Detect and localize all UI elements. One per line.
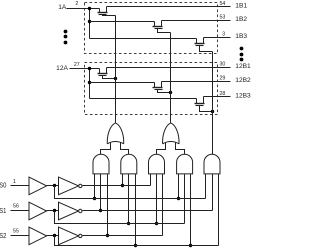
junction Q4 (12A-12B1) gate to control line <box>114 77 117 80</box>
dashed box: section 12 (12A switch group) <box>85 63 218 115</box>
wire S1 input <box>11 210 29 212</box>
OR gate U7 <box>107 123 123 144</box>
svg-text:12A: 12A <box>56 65 68 72</box>
rail S2 true (drop and run) <box>55 236 219 246</box>
node S0 branch <box>53 184 56 187</box>
node 1A-T1 junction <box>88 7 91 10</box>
AND gate U4 <box>149 154 165 174</box>
node 12A-T1 junction <box>88 67 91 70</box>
svg-text:28: 28 <box>219 91 225 97</box>
rail S0 inverted <box>83 185 151 187</box>
wire S0 input <box>11 185 29 187</box>
AND gate U3 <box>121 154 137 174</box>
wire AND U6 input leads <box>205 174 207 199</box>
svg-text:30: 30 <box>219 62 225 68</box>
inverter U10 <box>59 177 79 195</box>
rail S1 inverted <box>83 210 213 212</box>
buffer U13 <box>29 227 47 245</box>
wire control line B1 (OR1 output up to Q1 gates) <box>115 16 117 123</box>
node U5 taps <box>177 197 180 200</box>
AND gate U6 <box>204 154 220 174</box>
buffer U9 <box>29 177 47 195</box>
wire AND U4 input leads <box>150 174 152 186</box>
svg-text:12B1: 12B1 <box>235 63 251 70</box>
ellipsis between 1A and 12A <box>64 30 68 34</box>
svg-text:12B2: 12B2 <box>235 77 251 84</box>
junction Q6 (12A-12B3) gate to control line <box>211 110 214 113</box>
wire 12A input <box>70 68 100 70</box>
buffer U11 <box>29 202 47 220</box>
junction Q5 (12A-12B2) gate to control line <box>169 91 172 94</box>
inverter U14 <box>59 227 79 245</box>
wire OR2 right input <box>176 143 185 155</box>
wire to T3 <box>90 38 197 40</box>
svg-text:54: 54 <box>219 1 225 7</box>
svg-text:53: 53 <box>219 15 225 21</box>
rail S0 true (drop and run) <box>55 186 206 199</box>
node S1 branch <box>53 209 56 212</box>
node U3 taps <box>121 184 124 187</box>
wire Q4 out to 12B1 <box>107 67 231 69</box>
transistor Q3 (1A-1B3) <box>195 38 213 52</box>
wire 1A bus vertical <box>89 9 91 39</box>
svg-text:55: 55 <box>13 229 19 235</box>
wire control line B3 (AND5 output up to Q3 gates) <box>212 52 214 155</box>
wire buffer U11 out <box>47 210 59 212</box>
svg-text:1B1: 1B1 <box>235 2 247 9</box>
node S2 branch <box>53 234 56 237</box>
node U4 tap <box>155 222 158 225</box>
wire Q6 out to 12B3 <box>204 96 231 98</box>
wire to T2' <box>90 82 155 84</box>
AND gate U2 <box>93 154 109 174</box>
transistor Q1 (1A-1B1) <box>98 7 116 16</box>
svg-text:S0: S0 <box>0 181 6 190</box>
transistor Q6 (12A-12B3) <box>195 97 213 112</box>
wire control line B2 (OR2 output up to Q2 gates) <box>170 33 172 123</box>
svg-text:1B3: 1B3 <box>235 33 247 40</box>
transistor Q4 (12A-12B1) <box>98 68 116 79</box>
wire buffer U9 out <box>47 185 59 187</box>
wire to T3' <box>90 98 197 100</box>
svg-text:S2: S2 <box>0 231 6 240</box>
node 1A-T2 junction <box>88 20 91 23</box>
wire AND U3 input leads <box>122 174 124 186</box>
wire buffer U13 out <box>47 235 59 237</box>
wire 12A bus vertical <box>89 69 91 99</box>
wire AND U2 input leads <box>94 174 96 199</box>
svg-text:56: 56 <box>13 203 19 209</box>
wire Q5 out to 12B2 <box>162 81 231 83</box>
wire Q3 out to 1B3 <box>204 37 231 39</box>
transistor Q2 (1A-1B2) <box>153 21 171 33</box>
wire Q1 out to 1B1 <box>107 6 231 8</box>
wire S2 input <box>11 235 29 237</box>
svg-text:1B2: 1B2 <box>235 16 247 23</box>
svg-text:27: 27 <box>74 62 80 68</box>
wire 1A input <box>67 8 100 10</box>
rail S2 inverted <box>83 235 163 237</box>
svg-text:1: 1 <box>13 179 16 185</box>
inverter U12 <box>59 202 79 220</box>
node U2 taps <box>93 197 96 200</box>
node 12A-T2 junction <box>88 81 91 84</box>
svg-text:3: 3 <box>222 31 225 37</box>
AND gate U5 <box>177 154 193 174</box>
wire OR1 right input <box>121 143 129 155</box>
wire AND U5 input leads <box>178 174 180 199</box>
svg-text:S1: S1 <box>0 206 6 215</box>
transistor Q5 (12A-12B2) <box>153 82 171 93</box>
wire Q2 out to 1B2 <box>162 20 231 22</box>
wire OR2 left input <box>157 143 166 155</box>
wire to T2 <box>90 21 155 23</box>
ellipsis between 1B3 and 12B1 <box>240 47 244 51</box>
rail S1 true (drop and run) <box>55 211 185 224</box>
svg-text:29: 29 <box>219 76 225 82</box>
OR gate U8 <box>163 123 179 144</box>
dashed box: section 1 (1A switch group) <box>85 3 218 54</box>
wire OR1 left input <box>101 143 111 155</box>
svg-text:12B3: 12B3 <box>235 93 251 100</box>
svg-text:2: 2 <box>75 1 78 7</box>
svg-text:1A: 1A <box>58 4 67 11</box>
